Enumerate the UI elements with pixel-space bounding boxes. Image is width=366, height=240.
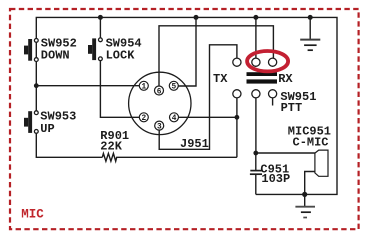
svg-text:UP: UP [40,122,54,136]
svg-text:2: 2 [142,115,147,123]
svg-text:LOCK: LOCK [106,49,136,63]
svg-text:J951: J951 [180,137,209,151]
svg-text:PTT: PTT [281,101,303,115]
svg-text:DOWN: DOWN [41,49,70,63]
svg-text:C-MIC: C-MIC [293,135,329,149]
svg-text:22K: 22K [100,140,122,154]
svg-text:4: 4 [172,115,177,123]
svg-text:1: 1 [142,84,147,92]
svg-text:TX: TX [213,72,228,86]
svg-text:6: 6 [157,88,162,96]
svg-text:MIC: MIC [21,208,44,222]
svg-text:103P: 103P [261,172,290,186]
svg-text:3: 3 [157,124,162,132]
svg-text:RX: RX [278,72,293,86]
svg-text:5: 5 [172,84,177,92]
